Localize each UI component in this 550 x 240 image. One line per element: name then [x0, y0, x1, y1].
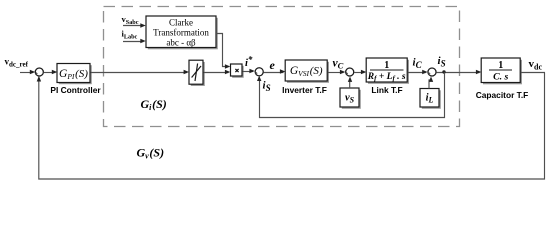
wire limiter to multiplier [204, 72, 229, 74]
wire i_L to S4 [429, 79, 431, 89]
arrowhead into summing junction S1 bottom [37, 76, 41, 82]
summing junction S1 [35, 68, 43, 76]
wire G_VSI to S3 [328, 72, 344, 74]
wire G_PI to limiter [91, 72, 188, 74]
wire i_Labc into Clarke block [123, 41, 144, 43]
svg-text:Gv(S): Gv(S) [137, 146, 165, 161]
svg-text:e: e [270, 58, 276, 72]
junction dot i_S tap [442, 70, 445, 73]
wire Clarke to multiplier [216, 34, 229, 67]
summing junction S2 [255, 68, 263, 76]
summing junction S4 [428, 68, 436, 76]
wire v_S to S3 [349, 79, 351, 89]
dashed box inner current loop G_i [104, 7, 460, 127]
wire multiplier to S2 [243, 71, 254, 73]
wire v_dc output [521, 72, 546, 74]
block i_L [420, 89, 441, 109]
svg-text:1: 1 [384, 60, 389, 71]
outer feedback loop wire (v_dc feedback) [39, 73, 545, 180]
wire input to S1 [20, 72, 33, 74]
node v_dc_ref label [5, 57, 29, 69]
wire S3 to Link block [354, 72, 365, 74]
svg-text:Capacitor T.F: Capacitor T.F [476, 90, 529, 100]
svg-text:1: 1 [498, 60, 503, 71]
svg-text:Clarke: Clarke [169, 18, 193, 28]
block Clarke Transformation [146, 16, 218, 49]
block capacitor T.F [481, 58, 522, 84]
wire v_Sabc into Clarke block [123, 25, 144, 27]
wire S2 to G_VSI [264, 72, 284, 74]
limiter block [189, 60, 205, 86]
svg-text:Link T.F: Link T.F [371, 85, 402, 95]
wire i_S feedback to S2 [260, 73, 445, 118]
svg-text:Rf + Lf . s: Rf + Lf . s [367, 72, 406, 83]
svg-text:PI Controller: PI Controller [50, 85, 101, 95]
wire S1 to G_PI [44, 72, 56, 74]
wire Link to S4 [408, 72, 426, 74]
block v_S [340, 88, 361, 109]
summing junction S3 [346, 68, 354, 76]
block Link T.F [366, 58, 409, 84]
multiplier block [231, 64, 244, 78]
wire S4 to capacitor block [436, 72, 479, 74]
svg-text:C. s: C. s [493, 72, 508, 83]
svg-text:Inverter T.F: Inverter T.F [282, 85, 327, 95]
svg-text:abc - αβ: abc - αβ [166, 38, 196, 48]
svg-text:Transformation: Transformation [153, 28, 209, 38]
block G_VSI(S) inverter [285, 60, 329, 83]
svg-text:Gi(S): Gi(S) [141, 97, 167, 112]
block G_PI(S) PI controller [57, 64, 92, 85]
